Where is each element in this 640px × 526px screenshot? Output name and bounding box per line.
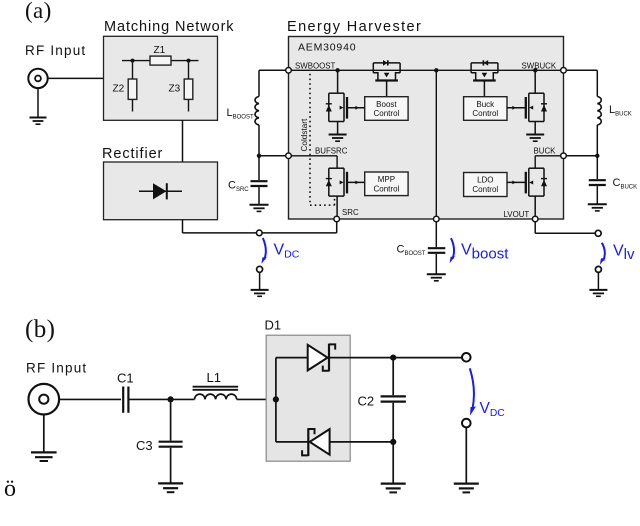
resistor Z1 — [150, 45, 171, 65]
svg-text:Z1: Z1 — [154, 45, 166, 56]
transistor Q1 boost high-side switch — [373, 60, 400, 97]
diode D1a (top, schottky) — [276, 344, 393, 372]
wire SWBOOST-SWBUCK top rail — [289, 69, 564, 71]
node C_BOOST (box edge) — [434, 216, 440, 222]
svg-text:Boost: Boost — [376, 100, 397, 109]
node SWBOOST (box edge) — [286, 68, 292, 74]
arrow V_boost (blue) — [450, 238, 455, 263]
arrow V_DC (blue) — [261, 238, 266, 264]
wire terminal to ground (V_DC) — [259, 272, 261, 289]
wire center divider — [435, 70, 437, 219]
svg-text:Matching Network: Matching Network — [104, 19, 234, 35]
wire LVOUT to V_lv — [535, 222, 595, 234]
ground below V_DC terminal (b) — [454, 484, 479, 493]
transistor Q6 LDO NMOS — [507, 168, 547, 219]
arrow V_lv (blue) — [600, 243, 605, 265]
svg-text:BUCK: BUCK — [534, 146, 557, 155]
inductor L_BOOST — [227, 97, 260, 125]
D1 box — [266, 335, 350, 461]
junction L_BUCK / C_BUCK — [595, 154, 599, 158]
terminal below V_lv — [595, 266, 601, 272]
capacitor C_BUCK — [589, 156, 637, 204]
junction C2 top — [390, 355, 396, 361]
ground below V_lv terminal — [589, 290, 607, 296]
svg-text:AEM30940: AEM30940 — [298, 42, 356, 54]
RF input connector J1 (a) — [28, 69, 47, 88]
wire BUFSRC rail — [289, 156, 338, 168]
transistor Q4 MPP NMOS — [326, 168, 365, 219]
svg-text:SWBOOST: SWBOOST — [295, 62, 336, 71]
diode D rectifier — [139, 183, 182, 199]
transistor Q3 boost low-side NMOS — [326, 70, 365, 134]
wire D1 input split — [275, 358, 277, 442]
svg-text:(b): (b) — [25, 316, 55, 343]
terminal V_DC+ (b) — [462, 353, 471, 362]
svg-text:SWBUCK: SWBUCK — [522, 62, 557, 71]
wire VDC horizontal — [183, 232, 337, 234]
svg-text:Coldstart: Coldstart — [300, 118, 309, 151]
node SRC (box edge) — [334, 216, 340, 222]
node LVOUT (box edge) — [532, 216, 538, 222]
svg-text:LVOUT: LVOUT — [504, 210, 530, 219]
node BUFSRC (box edge) — [286, 153, 292, 159]
wire terminal to ground (V_lv) — [597, 273, 599, 290]
node junction left of Z1 — [131, 59, 135, 63]
junction L_BOOST / C_SRC — [257, 154, 261, 158]
Energy Harvester box — [289, 37, 564, 220]
wire L_BUCK to BUCK — [564, 125, 598, 156]
inductor L_BUCK — [597, 97, 631, 125]
svg-text:SRC: SRC — [342, 208, 359, 217]
wire Z1 rail — [122, 60, 199, 62]
svg-text:MPP: MPP — [378, 175, 395, 184]
wire connector to C1 — [59, 398, 121, 400]
junction divider on rail — [434, 68, 438, 72]
wire matching network to rectifier — [182, 120, 184, 162]
Rectifier box — [104, 162, 218, 220]
ground below Q3 — [329, 135, 347, 142]
svg-text:Energy Harvester: Energy Harvester — [287, 19, 422, 35]
svg-text:(a): (a) — [25, 0, 52, 23]
node V_DC output — [257, 230, 263, 236]
wire top diode to output terminal — [393, 357, 462, 359]
wire SRC node down — [336, 219, 338, 233]
node junction right of Z1 — [187, 59, 191, 63]
capacitor C3 — [136, 399, 183, 482]
ground below C2 — [381, 484, 406, 493]
Boost Control block U1 — [365, 97, 408, 121]
ground below Q5 — [526, 135, 544, 142]
capacitor C_BOOST — [397, 222, 446, 274]
wire SWBUCK to L_BUCK — [564, 70, 598, 96]
junction boost switch on rail — [335, 68, 339, 72]
wire L_BOOST to BUFSRC — [259, 125, 289, 156]
transistor Q2 buck high-side switch — [471, 60, 498, 97]
capacitor C1 — [117, 371, 171, 413]
resistor Z2 — [113, 63, 137, 112]
node SWBUCK (box edge) — [561, 68, 567, 74]
terminal V_DC- (b) — [462, 419, 471, 428]
wire terminal to ground (b) — [465, 427, 467, 482]
diode D1b (bottom, schottky) — [276, 428, 393, 456]
wire rectifier output down — [182, 220, 184, 233]
svg-text:LDO: LDO — [477, 176, 493, 185]
svg-text:Rectifier: Rectifier — [102, 146, 163, 162]
transistor Q5 buck low-side NMOS — [507, 70, 547, 134]
arrow V_DC (b, blue) — [470, 368, 476, 415]
ground below C3 — [158, 483, 183, 492]
junction C2 bottom — [390, 439, 396, 445]
terminal below V_DC — [257, 266, 263, 272]
resistor Z3 — [169, 63, 193, 112]
coldstart dotted boundary — [310, 74, 335, 205]
svg-text:C1: C1 — [117, 371, 134, 386]
node BUCK (box edge) — [561, 153, 567, 159]
junction C3 tap — [168, 396, 174, 402]
svg-text:BUFSRC: BUFSRC — [315, 146, 348, 155]
svg-text:C3: C3 — [136, 438, 153, 453]
svg-text:C2: C2 — [358, 394, 375, 409]
MPP Control block U3 — [365, 172, 408, 196]
junction D1 input — [273, 396, 279, 402]
capacitor C2 — [358, 358, 406, 483]
svg-text:Control: Control — [374, 184, 400, 193]
ground below C_BOOST — [427, 274, 446, 281]
svg-text:ö: ö — [4, 476, 16, 502]
ground below C_BUCK — [588, 204, 607, 211]
wire BUCK rail — [535, 156, 563, 168]
ground below RF connector (a) — [30, 88, 47, 124]
svg-text:D1: D1 — [265, 318, 282, 333]
ground below C_SRC — [250, 205, 269, 212]
svg-text:Z3: Z3 — [169, 84, 181, 95]
Matching Network box — [104, 36, 218, 120]
inductor L1 — [171, 370, 276, 399]
svg-text:Control: Control — [472, 185, 498, 194]
LDO Control block U4 — [464, 173, 507, 197]
node V_lv output — [595, 230, 601, 236]
svg-text:Z2: Z2 — [113, 84, 125, 95]
wire SWBOOST to L_BOOST — [259, 70, 289, 96]
svg-text:RF Input: RF Input — [26, 361, 87, 376]
wire RF input to matching network — [48, 77, 104, 79]
svg-text:RF Input: RF Input — [25, 43, 86, 58]
svg-text:L1: L1 — [207, 370, 221, 385]
junction swbuck on rail — [533, 68, 537, 72]
svg-text:Control: Control — [374, 109, 400, 118]
Buck Control block U2 — [464, 97, 507, 121]
RF input connector J2 (b) — [29, 384, 60, 415]
capacitor C_SRC — [228, 156, 268, 205]
svg-text:Buck: Buck — [476, 100, 495, 109]
svg-text:Control: Control — [472, 109, 498, 118]
ground below RF connector (b) — [31, 415, 57, 461]
ground below V_DC terminal — [251, 290, 269, 296]
